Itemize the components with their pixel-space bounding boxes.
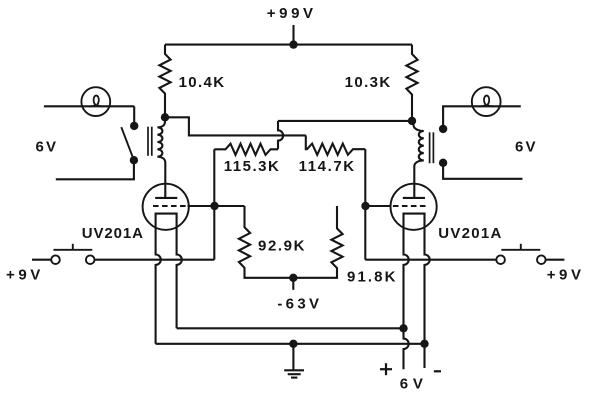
transformer T1 core: [147, 127, 149, 156]
node battery plus junction: [399, 324, 407, 332]
transformer T1 primary coil: [157, 117, 165, 198]
pushbutton S3 bar: [501, 249, 540, 251]
wire +9V left lead: [32, 259, 51, 261]
switch S1 bottom contact: [130, 156, 138, 164]
wire V1 filament left lead with hop: [156, 218, 161, 344]
wire ground bus: [156, 343, 425, 345]
node +99V junction: [289, 40, 297, 48]
node B right plate junction: [408, 117, 416, 125]
transformer T2 core: [429, 132, 431, 163]
wire -63V stub: [292, 278, 294, 290]
tube V1 filament: [156, 214, 177, 218]
node ground junction: [289, 340, 297, 348]
node T2 secondary bottom: [439, 159, 447, 167]
svg-text:-63V: -63V: [277, 296, 322, 313]
resistor R2 10.3K: [406, 45, 417, 121]
pushbutton S3 left contact: [496, 255, 505, 264]
wire hop crossover at coupling: [278, 121, 283, 149]
svg-text:UV201A: UV201A: [82, 225, 144, 242]
wire ground stub: [292, 344, 294, 370]
svg-text:92.9K: 92.9K: [258, 238, 306, 255]
battery minus sign: [434, 370, 441, 372]
wire left 6V bottom: [56, 160, 134, 179]
wire 114.7K right lead down: [364, 149, 366, 206]
wire left trigger bus: [95, 259, 215, 261]
pushbutton S2 bar: [53, 249, 92, 251]
wire +9V right lead: [546, 259, 565, 261]
node right grid junction: [361, 202, 369, 210]
node -63V junction: [289, 274, 297, 282]
wire 115.3K left lead down: [213, 149, 215, 206]
tube V1 plate: [155, 197, 177, 199]
svg-text:114.7K: 114.7K: [299, 158, 356, 175]
lamp DS1 envelope: [81, 87, 110, 116]
svg-text:+9V: +9V: [547, 266, 585, 283]
wire grid node down to trigger: [213, 206, 215, 260]
svg-text:6V: 6V: [400, 376, 428, 393]
wire right trigger bus: [365, 259, 496, 261]
wire right plate to coupling: [278, 120, 412, 122]
transformer T2 primary coil: [412, 121, 424, 198]
svg-text:10.3K: 10.3K: [345, 74, 392, 91]
node battery minus junction: [420, 340, 428, 348]
wire V2 grid lead: [366, 205, 392, 207]
svg-text:91.8K: 91.8K: [347, 269, 398, 286]
node A left plate junction: [161, 113, 169, 121]
wire left plate to coupling: [165, 117, 306, 135]
resistor R1 10.4K: [159, 45, 170, 118]
node T2 secondary top: [439, 125, 447, 133]
svg-text:+9V: +9V: [6, 266, 44, 283]
switch S1 top contact: [130, 122, 138, 130]
wire grid node down to trigger right: [364, 206, 366, 260]
tube V2 envelope: [391, 184, 437, 230]
wire V1 grid lead: [188, 205, 215, 207]
tube V2 plate: [403, 197, 425, 199]
tube V1 envelope: [143, 184, 189, 230]
svg-text:6V: 6V: [36, 138, 59, 155]
wire V2 filament left lead with hops: [404, 218, 409, 369]
wire +99V stub: [292, 25, 294, 45]
wire right 6V bottom: [443, 163, 522, 179]
pushbutton S3 stem: [520, 244, 522, 250]
tube V2 grid (dashed): [392, 205, 426, 207]
pushbutton S3 right contact: [537, 255, 546, 264]
wire V1 filament right lead with hop: [177, 218, 182, 328]
lamp DS2 envelope: [472, 87, 501, 116]
resistor R3 115.3K: [214, 144, 278, 155]
resistor R5 92.9K: [239, 206, 293, 278]
tube V1 grid (dashed): [153, 205, 187, 207]
svg-text:115.3K: 115.3K: [224, 158, 281, 175]
svg-text:UV201A: UV201A: [438, 225, 503, 242]
wire top supply rail: [165, 44, 412, 46]
wire left 6V top: [44, 105, 134, 107]
svg-text:10.4K: 10.4K: [179, 74, 226, 91]
resistor R4 114.7K: [306, 135, 366, 154]
ground symbol: [284, 369, 304, 371]
wire right 6V top: [443, 106, 521, 129]
tube V2 filament: [404, 214, 425, 218]
wire filament return upper: [177, 327, 404, 329]
wire grid node to 92.9K: [215, 205, 245, 207]
lamp DS1 filament loop: [89, 96, 104, 107]
svg-text:6V: 6V: [515, 138, 538, 155]
resistor R6 91.8K: [293, 206, 342, 278]
pushbutton S2 stem: [72, 244, 74, 250]
battery plus sign: [380, 368, 392, 370]
node left grid junction: [210, 202, 218, 210]
pushbutton S2 right contact: [86, 255, 95, 264]
switch S1 lever: [121, 127, 134, 160]
lamp DS2 filament loop: [479, 96, 494, 107]
wire switch feed: [133, 106, 135, 126]
pushbutton S2 left contact: [51, 255, 60, 264]
wire V2 filament right lead with hop: [425, 218, 430, 368]
svg-text:+99V: +99V: [267, 5, 317, 22]
